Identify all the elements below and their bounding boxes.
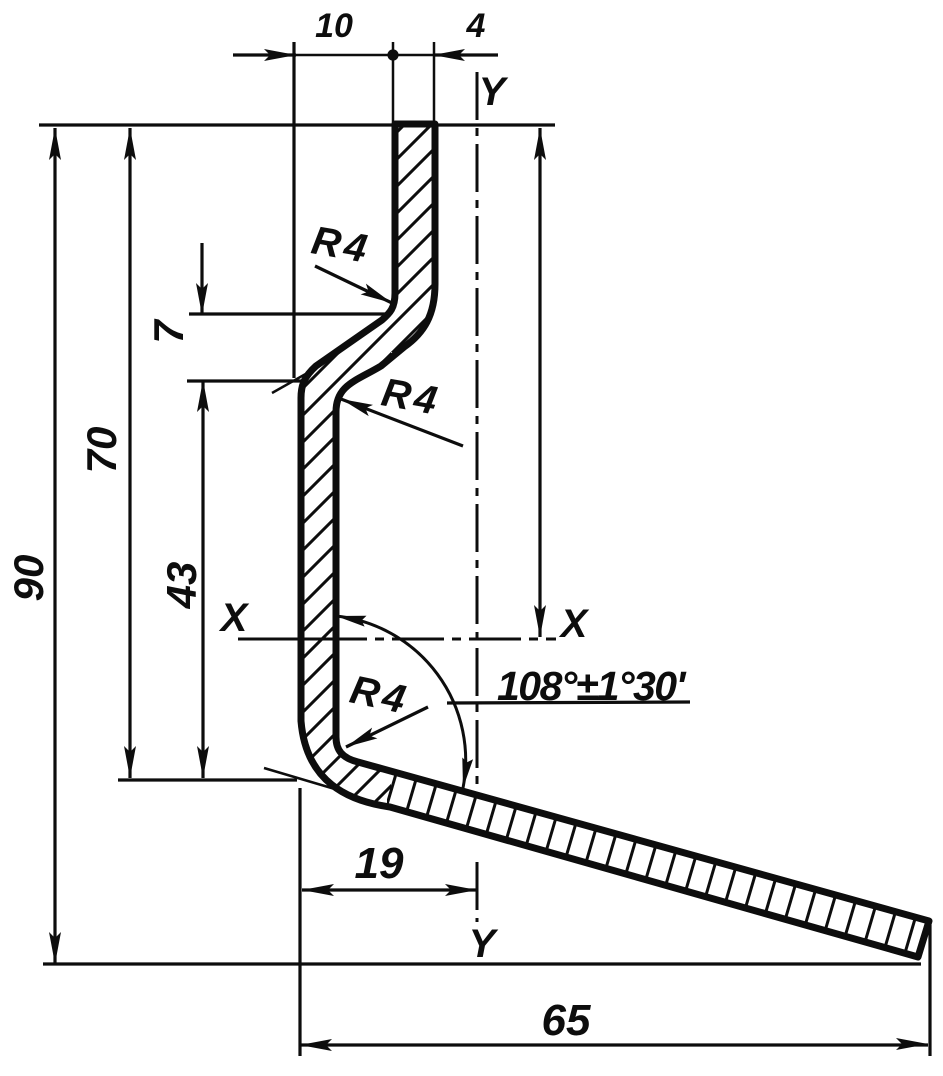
arrow dim4 right bbox=[433, 49, 465, 61]
arrow 70 top bbox=[124, 128, 136, 160]
extension line x=434 bbox=[433, 42, 436, 125]
extension line y=314 bbox=[189, 312, 388, 315]
svg-text:70: 70 bbox=[78, 427, 125, 474]
arrow 65 right bbox=[896, 1038, 928, 1050]
profile body fill bbox=[301, 124, 929, 957]
arrow 70 bottom bbox=[124, 746, 136, 778]
leader underline 108 deg bbox=[447, 702, 690, 703]
svg-text:108°±1°30': 108°±1°30' bbox=[497, 663, 687, 709]
arrow 90 bottom bbox=[49, 932, 61, 964]
arrow 19 left bbox=[302, 884, 334, 896]
dot terminator dim 10/4 bbox=[387, 49, 398, 60]
arrow 65 left bbox=[300, 1039, 332, 1051]
arrow 7 down bbox=[196, 283, 208, 315]
dimension line 70 bbox=[128, 128, 131, 778]
arrow x-dim bottom bbox=[534, 605, 546, 637]
dimension line 7 upper shaft bbox=[200, 243, 203, 314]
svg-text:10: 10 bbox=[315, 7, 353, 45]
extension line y=780 bbox=[118, 778, 297, 781]
extension line x=294 bbox=[292, 42, 295, 378]
svg-text:X: X bbox=[219, 596, 250, 640]
svg-text:Y: Y bbox=[469, 922, 499, 966]
X axis over web bbox=[280, 638, 350, 641]
dimension line 10 shaft bbox=[233, 53, 296, 56]
arrow 7 up / 43 top bbox=[197, 380, 209, 412]
angle arc 108 deg bbox=[336, 616, 466, 788]
extension line x=300 bottom bbox=[298, 788, 301, 1056]
svg-text:19: 19 bbox=[355, 839, 404, 888]
vertical dimension line x=540 (top to X axis) bbox=[538, 128, 541, 637]
tangent construction line at bottom bend bbox=[264, 768, 345, 792]
dimension line 43 bbox=[201, 381, 204, 778]
extension line y=381 bbox=[187, 379, 302, 382]
leader line R4 bottom bbox=[346, 707, 428, 747]
svg-text:43: 43 bbox=[158, 562, 205, 610]
dimension line 4 shaft bbox=[433, 53, 498, 56]
svg-text:90: 90 bbox=[5, 555, 52, 602]
arrow 43 bottom bbox=[197, 746, 209, 778]
hatching flange region bbox=[380, 760, 940, 975]
arrow dim10 left bbox=[264, 49, 296, 61]
top edge extension line bbox=[39, 123, 555, 126]
arrow 90 top bbox=[49, 128, 61, 160]
svg-text:Y: Y bbox=[479, 70, 509, 114]
dimension line 90 bbox=[53, 128, 56, 964]
profile outline bbox=[301, 124, 929, 957]
arrow R4 bottom leader bbox=[346, 728, 377, 747]
arrow x-dim top bbox=[534, 128, 546, 160]
arrow R4 middle leader bbox=[341, 399, 373, 416]
svg-text:4: 4 bbox=[466, 7, 486, 45]
extension line x=930 bottom bbox=[928, 925, 931, 1056]
arrow angle arc bottom bbox=[462, 758, 473, 789]
bottom base extension line bbox=[43, 962, 921, 965]
svg-text:X: X bbox=[559, 602, 590, 646]
axis Y-Y dash-dot bbox=[476, 72, 479, 922]
axis X-X dash-dot bbox=[238, 638, 556, 641]
dimension line 19 bbox=[302, 888, 477, 891]
arrow R4 top leader bbox=[361, 284, 392, 303]
arrow angle arc top bbox=[336, 616, 367, 627]
extension line x=393 bbox=[392, 42, 395, 125]
svg-text:65: 65 bbox=[542, 996, 591, 1045]
svg-text:7: 7 bbox=[145, 319, 192, 344]
dim line 10-4 connecting bbox=[296, 54, 433, 57]
dimension line 65 bbox=[300, 1043, 928, 1046]
leader line R4 top bbox=[315, 266, 392, 303]
leader line R4 middle bbox=[341, 399, 463, 446]
arrow 19 right bbox=[445, 884, 477, 896]
tangent construction line at S bend bbox=[272, 367, 318, 393]
